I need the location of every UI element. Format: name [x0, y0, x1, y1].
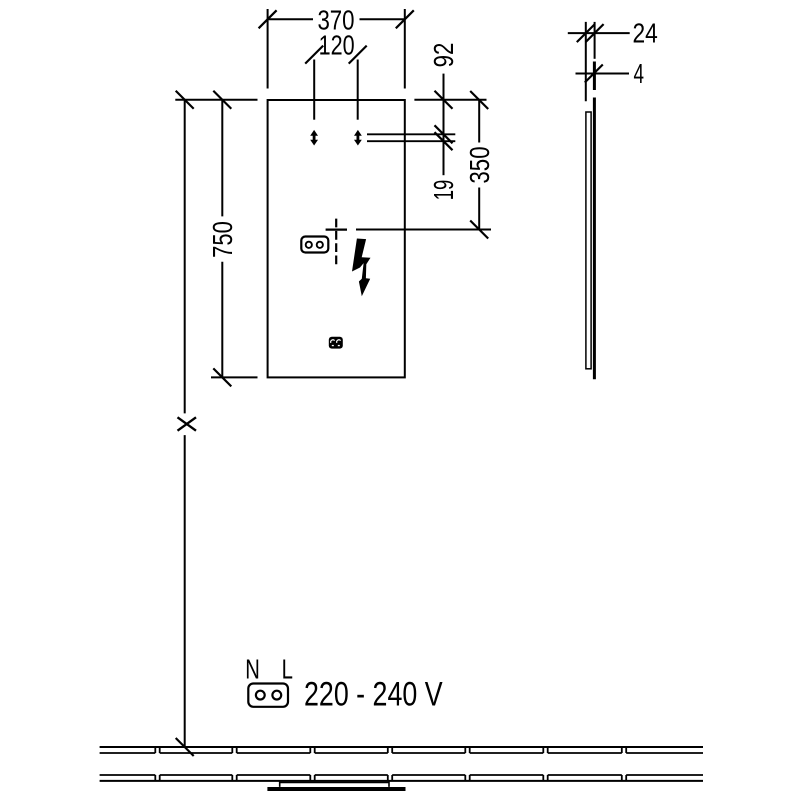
- extension line back face: [585, 22, 587, 101]
- extension line 120 left: [313, 60, 315, 120]
- dimension line 92-19: [443, 74, 445, 176]
- dimension line 370: [268, 18, 405, 20]
- back panel side view: [586, 112, 591, 369]
- washbasin tray outline: [280, 781, 389, 787]
- svg-text:19: 19: [428, 180, 459, 201]
- upper tile band joints: [100, 747, 703, 753]
- extension line 370 left: [267, 9, 269, 89]
- tick 350 bottom: [470, 221, 488, 239]
- tick 19 lower: [435, 132, 453, 150]
- tick X bottom: [176, 738, 194, 756]
- extension line front face: [594, 22, 596, 59]
- tick 4: [585, 65, 603, 83]
- svg-text:220 - 240 V: 220 - 240 V: [304, 676, 443, 714]
- hanger adjust symbol left: [310, 130, 318, 146]
- extension line 370 right: [404, 9, 406, 89]
- hanging rail double line: [367, 134, 455, 141]
- svg-text:L: L: [282, 653, 293, 684]
- hanger adjust symbol right: [354, 130, 362, 146]
- wall line lower tile band: [100, 780, 703, 782]
- socket outlet symbol: [301, 237, 328, 253]
- mirror glass upper segment: [593, 62, 596, 91]
- dimension line X: [184, 100, 186, 747]
- dimension line 750: [221, 100, 223, 378]
- dimension line 4: [576, 73, 630, 75]
- tick 92 top: [435, 91, 453, 109]
- label X: [178, 417, 197, 430]
- tick 350 top: [470, 91, 488, 109]
- centerline cross vertical dashed: [335, 219, 337, 267]
- tick 750 bottom: [213, 368, 231, 386]
- lightning bolt: [352, 239, 371, 297]
- svg-text:4: 4: [634, 58, 645, 89]
- tick X top: [176, 91, 194, 109]
- tick 370 right: [396, 10, 414, 28]
- tick 370 left: [259, 10, 277, 28]
- reference line bottom left: [211, 376, 258, 378]
- svg-text:750: 750: [207, 221, 238, 258]
- reference line top left: [175, 99, 257, 101]
- mirror outline front view: [268, 100, 405, 377]
- tick 24 left: [577, 24, 595, 42]
- extension line 120 right: [357, 60, 359, 120]
- mains socket symbol: [248, 684, 288, 707]
- tick 750 top: [213, 91, 231, 109]
- svg-text:N: N: [245, 653, 260, 684]
- tick 120 right: [349, 46, 367, 64]
- dimension line 350: [478, 100, 480, 230]
- tick 24 right: [586, 24, 604, 42]
- mirror glass side view: [593, 98, 596, 380]
- dimension line 24: [568, 32, 630, 34]
- tick 19 upper: [435, 125, 453, 143]
- svg-text:24: 24: [633, 18, 658, 49]
- wall line upper tile band: [100, 746, 703, 748]
- reference line top right: [414, 99, 486, 101]
- tick 120 left: [305, 46, 323, 64]
- washbasin thick edge: [267, 787, 405, 791]
- svg-text:92: 92: [428, 43, 459, 68]
- svg-text:120: 120: [319, 30, 355, 61]
- reference line outlet level: [356, 229, 491, 231]
- lower tile band joints: [100, 775, 703, 781]
- svg-text:350: 350: [464, 146, 495, 183]
- centerline cross horizontal: [326, 229, 347, 231]
- bottom fixing mark: [329, 337, 343, 349]
